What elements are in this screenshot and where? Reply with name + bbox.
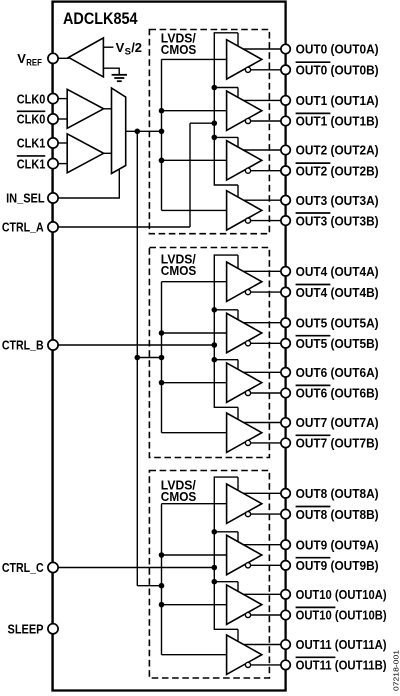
wire clock to driver OUT3 (162, 209, 227, 211)
wire clock to driver OUT0 (162, 58, 227, 60)
wire ctrl drop into driver OUT7 (237, 407, 239, 419)
output driver OUT7 (227, 413, 262, 452)
svg-text:CLK1: CLK1 (17, 136, 46, 151)
output driver OUT5 (227, 313, 262, 352)
pin CLK0 (48, 94, 58, 104)
input buffer U3 CLK1 (67, 134, 103, 173)
svg-text:ADCLK854: ADCLK854 (63, 9, 138, 28)
wire right rail pair OUT0 (285, 54, 287, 65)
svg-text:OUT11 (OUT11B): OUT11 (OUT11B) (296, 658, 387, 673)
wire right rail pair OUT9 (285, 549, 287, 560)
wire ctrl over-path T2 bank C (214, 531, 238, 533)
wire U2 out to mux (104, 108, 112, 110)
bank B LVDS/CMOS dashed box (149, 248, 269, 458)
pin OUT11B (281, 660, 290, 669)
svg-text:V: V (116, 40, 125, 55)
svg-text:CMOS: CMOS (161, 490, 197, 504)
junction ctrl bus taps bank B (212, 307, 218, 313)
svg-text:OUT10 (OUT10B): OUT10 (OUT10B) (296, 608, 387, 623)
junction ctrl bus taps bank C (212, 529, 218, 535)
wire CLK0B to U2 (58, 118, 67, 120)
wire left rail CLK segment (52, 63, 54, 94)
wire ctrl drop into driver OUT1 (237, 88, 239, 98)
output driver OUT10 (227, 585, 262, 624)
svg-text:OUT11 (OUT11A): OUT11 (OUT11A) (296, 637, 387, 652)
wire left rail CTRL_C to SLEEP (52, 572, 54, 624)
pin OUT6A (281, 368, 290, 377)
wire clock trunk vertical (136, 131, 138, 585)
wire VREF stub top (52, 2, 54, 54)
wire output OUT5B (251, 342, 281, 344)
wire ctrl over-path T2 bank B (214, 309, 238, 311)
wire right rail pair OUT4 (285, 276, 287, 287)
junction clock bus taps bank A (159, 108, 165, 114)
svg-text:OUT9 (OUT9B): OUT9 (OUT9B) (296, 558, 379, 573)
pin OUT11A (281, 640, 290, 649)
wire output OUT1B (251, 120, 281, 122)
wire ctrl drop into driver OUT0 (237, 33, 239, 46)
pin CTRL_B (48, 340, 58, 350)
junction clock bus taps bank B (159, 330, 165, 336)
wire clock bus bank C (161, 504, 163, 655)
mux U4 input select (112, 88, 126, 174)
wire output OUT5A (243, 322, 281, 324)
junction clock bus taps bank C (159, 552, 165, 558)
wire ctrl drop into driver OUT10 (237, 582, 239, 592)
pin CLK1 (48, 138, 58, 148)
svg-text:OUT0 (OUT0B): OUT0 (OUT0B) (296, 63, 379, 78)
wire output OUT11A (244, 644, 281, 646)
pin VREF (48, 53, 58, 63)
pin OUT2B (281, 166, 290, 175)
output driver OUT3 (227, 191, 262, 230)
wire ctrl over-path T3 bank A (214, 136, 238, 138)
output driver OUT6 (227, 363, 262, 402)
wire output OUT11B (251, 664, 281, 666)
wire ctrl bus bank B (214, 255, 238, 407)
pin OUT9B (281, 561, 290, 570)
wire left rail CTRL_A to CTRL_B (52, 232, 54, 341)
svg-text:OUT2 (OUT2B): OUT2 (OUT2B) (296, 163, 379, 178)
wire output OUT3A (244, 199, 281, 201)
wire right rail OUT6 (285, 398, 287, 418)
svg-text:IN_SEL: IN_SEL (6, 191, 45, 206)
svg-text:OUT5 (OUT5A): OUT5 (OUT5A) (296, 315, 379, 330)
wire VREF to U1 output (58, 57, 70, 59)
wire left rail CTRL_B to CTRL_C (52, 350, 54, 563)
wire output OUT6B (251, 392, 281, 394)
wire left rail IN_SEL to CTRL_A (52, 203, 54, 223)
wire right rail OUT4 (285, 297, 287, 318)
wire clock to driver OUT6 (162, 382, 227, 384)
wire output OUT6A (243, 371, 281, 373)
svg-text:CTRL_A: CTRL_A (2, 220, 44, 235)
pin CLK1B (48, 159, 58, 169)
wire right rail bank gap B (285, 448, 287, 489)
svg-text:OUT3 (OUT3A): OUT3 (OUT3A) (296, 193, 379, 208)
wire clock to driver OUT1 (162, 110, 227, 112)
wire output OUT3B (251, 220, 281, 222)
wire ctrl drop into driver OUT11 (237, 629, 239, 641)
pin CLK0B (48, 114, 58, 124)
svg-text:CMOS: CMOS (161, 264, 197, 278)
wire ctrl drop into driver OUT2 (237, 137, 239, 147)
wire clock to driver OUT9 (162, 554, 227, 556)
wire output OUT4A (243, 270, 281, 272)
wire output OUT7A (244, 422, 281, 424)
pin OUT0A (281, 44, 290, 53)
IC body ADCLK854 outline (53, 2, 286, 691)
svg-text:07218-001: 07218-001 (392, 650, 400, 691)
wire right rail bottom (285, 670, 287, 691)
output driver OUT2 (227, 141, 262, 180)
wire IN_SEL to mux (58, 169, 120, 198)
output driver OUT4 (227, 262, 262, 301)
wire ctrl drop into driver OUT6 (237, 360, 239, 370)
wire clock to driver OUT5 (162, 332, 227, 334)
wire right rail pair OUT10 (285, 599, 287, 610)
wire clock to driver OUT4 (162, 281, 227, 283)
svg-text:OUT8 (OUT8A): OUT8 (OUT8A) (296, 486, 379, 501)
wire right rail pair OUT3 (285, 205, 287, 216)
wire CTRL_A run (58, 226, 190, 228)
wire ctrl drop into driver OUT9 (237, 532, 239, 542)
svg-text:V: V (17, 51, 26, 66)
pin SLEEP (48, 624, 58, 634)
wire CTRL_C run (58, 567, 215, 569)
wire right rail OUT5 (285, 348, 287, 368)
svg-text:CLK1: CLK1 (17, 156, 46, 171)
output driver OUT9 (227, 535, 262, 574)
junction ctrl bus taps bank A (212, 85, 218, 91)
wire U1 VS/2 input (103, 46, 113, 48)
wire right rail OUT10 (285, 620, 287, 640)
wire right rail OUT1 (285, 126, 287, 146)
pin OUT0B (281, 65, 290, 74)
svg-text:SLEEP: SLEEP (8, 622, 44, 637)
input buffer U2 CLK0 (67, 89, 103, 128)
wire clock bus bank B (161, 282, 163, 433)
wire clock bus bank A (161, 59, 163, 210)
svg-text:OUT6 (OUT6A): OUT6 (OUT6A) (296, 365, 379, 380)
wire clock tap bank B (137, 357, 161, 359)
wire CTRL_B run (58, 344, 215, 346)
wire output OUT9A (243, 544, 281, 546)
svg-text:OUT7 (OUT7A): OUT7 (OUT7A) (296, 415, 379, 430)
wire output OUT10A (243, 593, 281, 595)
pin OUT5A (281, 318, 290, 327)
svg-text:OUT2 (OUT2A): OUT2 (OUT2A) (296, 143, 379, 158)
pin OUT4A (281, 267, 290, 276)
wire output OUT7B (251, 442, 281, 444)
pin OUT5B (281, 339, 290, 348)
svg-text:OUT4 (OUT4B): OUT4 (OUT4B) (296, 285, 379, 300)
pin OUT10A (281, 590, 290, 599)
pin CTRL_A (48, 222, 58, 232)
svg-text:CTRL_C: CTRL_C (2, 560, 44, 575)
pin OUT8A (281, 489, 290, 498)
wire ctrl over-path T3 bank C (214, 581, 238, 583)
wire CLK1 to U3 (58, 142, 67, 144)
svg-text:OUT1 (OUT1A): OUT1 (OUT1A) (296, 93, 379, 108)
pin IN_SEL (48, 193, 58, 203)
output driver OUT1 (227, 91, 262, 130)
svg-text:CLK0: CLK0 (17, 112, 46, 127)
pin OUT7B (281, 438, 290, 447)
pin OUT1B (281, 116, 290, 125)
pin OUT1A (281, 96, 290, 105)
output driver OUT8 (227, 484, 262, 523)
junction mux output trunk (135, 129, 141, 135)
svg-text:OUT8 (OUT8B): OUT8 (OUT8B) (296, 507, 379, 522)
svg-text:OUT4 (OUT4A): OUT4 (OUT4A) (296, 264, 379, 279)
svg-text:OUT1 (OUT1B): OUT1 (OUT1B) (296, 114, 379, 129)
wire ctrl bus bank C (214, 477, 238, 629)
output driver OUT0 (227, 40, 262, 79)
wire mux output (126, 130, 162, 132)
wire right rail OUT8 (285, 519, 287, 540)
svg-text:OUT3 (OUT3B): OUT3 (OUT3B) (296, 213, 379, 228)
wire ctrl bus bank A (214, 33, 238, 185)
svg-text:OUT9 (OUT9A): OUT9 (OUT9A) (296, 537, 379, 552)
wire clock to driver OUT10 (162, 604, 227, 606)
pin OUT4B (281, 287, 290, 296)
bank A LVDS/CMOS dashed box (149, 30, 269, 234)
pin CTRL_C (48, 562, 58, 572)
wire output OUT8A (243, 492, 281, 494)
wire ctrl drop into driver OUT3 (237, 185, 239, 197)
wire output OUT0B (251, 69, 281, 71)
wire output OUT0A (243, 48, 281, 50)
pin OUT9A (281, 540, 290, 549)
pin OUT3A (281, 196, 290, 205)
svg-text:OUT0 (OUT0A): OUT0 (OUT0A) (296, 42, 379, 57)
wire output OUT10B (251, 614, 281, 616)
pin OUT6B (281, 388, 290, 397)
svg-text:OUT5 (OUT5B): OUT5 (OUT5B) (296, 336, 379, 351)
wire ctrl over-path T2 bank A (214, 87, 238, 89)
wire right rail OUT0 (285, 75, 287, 96)
svg-text:OUT10 (OUT10A): OUT10 (OUT10A) (296, 587, 387, 602)
wire ctrl drop into driver OUT8 (237, 477, 239, 490)
wire right rail OUT9 (285, 570, 287, 590)
svg-text:/2: /2 (131, 40, 142, 55)
wire U3 out to mux (104, 152, 112, 154)
wire ctrl drop into driver OUT4 (237, 255, 239, 268)
pin OUT3B (281, 216, 290, 225)
wire clock to driver OUT8 (162, 503, 227, 505)
wire output OUT9B (251, 564, 281, 566)
junction trunk bank B tap (135, 355, 141, 361)
pin OUT8B (281, 509, 290, 518)
wire U1 to ground (103, 67, 119, 69)
op-amp U1 VREF buffer (69, 38, 104, 77)
pin OUT2A (281, 145, 290, 154)
output driver OUT11 (227, 635, 262, 674)
wire ctrl over-path T3 bank B (214, 359, 238, 361)
pin OUT7A (281, 418, 290, 427)
wire output OUT1A (243, 99, 281, 101)
wire output OUT2B (251, 170, 281, 172)
ground (112, 74, 127, 76)
wire output OUT4B (251, 291, 281, 293)
wire output OUT2A (243, 149, 281, 151)
wire left rail SLEEP to bottom (52, 634, 54, 691)
wire ctrl drop into driver OUT5 (237, 310, 239, 320)
svg-text:CTRL_B: CTRL_B (2, 338, 44, 353)
svg-text:S: S (125, 46, 131, 57)
svg-text:CLK0: CLK0 (17, 91, 46, 106)
wire right rail bank gap A (285, 225, 287, 266)
svg-text:CMOS: CMOS (161, 43, 197, 57)
wire right rail pair OUT11 (285, 649, 287, 660)
svg-text:REF: REF (26, 58, 42, 69)
wire right rail pair OUT2 (285, 155, 287, 166)
bank C LVDS/CMOS dashed box (149, 471, 269, 679)
pin OUT10B (281, 610, 290, 619)
wire CLK0 to U2 (58, 98, 67, 100)
wire right rail pair OUT6 (285, 377, 287, 388)
wire right rail pair OUT5 (285, 327, 287, 338)
wire right rail pair OUT8 (285, 498, 287, 509)
wire right rail pair OUT7 (285, 427, 287, 438)
wire right rail OUT2 (285, 175, 287, 195)
svg-text:OUT6 (OUT6B): OUT6 (OUT6B) (296, 386, 379, 401)
svg-text:OUT7 (OUT7B): OUT7 (OUT7B) (296, 436, 379, 451)
wire CLK1B to U3 (58, 163, 67, 165)
wire right rail pair OUT1 (285, 105, 287, 116)
wire clock to driver OUT2 (162, 159, 227, 161)
wire clock to driver OUT7 (162, 432, 227, 434)
wire right rail top (285, 2, 287, 45)
wire clock to driver OUT11 (162, 654, 227, 656)
wire output OUT8B (251, 513, 281, 515)
